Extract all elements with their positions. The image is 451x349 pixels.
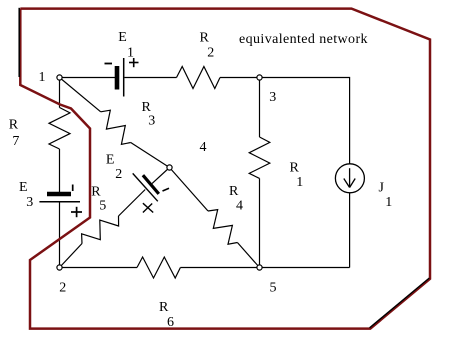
- svg-text:R: R: [159, 300, 169, 315]
- svg-text:3: 3: [26, 195, 33, 210]
- svg-text:5: 5: [270, 280, 277, 295]
- wire node2 to R6: [60, 267, 138, 269]
- wire node1 to E1: [60, 77, 116, 79]
- wire E1 to R2: [125, 77, 177, 79]
- svg-text:E: E: [106, 152, 115, 167]
- wire E2 to R5: [119, 190, 146, 217]
- svg-text:R: R: [9, 118, 19, 133]
- wire R4 to node5: [237, 243, 259, 268]
- svg-text:1: 1: [39, 70, 46, 85]
- wire node1 down to R7: [59, 78, 61, 108]
- resistor R1: [249, 137, 270, 178]
- battery E1: [105, 58, 139, 97]
- node 4: [167, 140, 207, 170]
- wire R1 to node5: [259, 178, 261, 267]
- svg-text:1: 1: [296, 175, 303, 190]
- label R3: [142, 100, 156, 129]
- resistor R5: [82, 216, 119, 244]
- wire node3 to top-right corner and down to J1: [260, 78, 350, 164]
- resistor R7: [49, 108, 70, 150]
- svg-text:2: 2: [59, 280, 66, 295]
- current source J1: [335, 164, 364, 193]
- label E2: [106, 152, 122, 182]
- svg-text:2: 2: [115, 167, 122, 182]
- wire R7 to E3: [59, 149, 61, 192]
- svg-text:7: 7: [12, 134, 19, 149]
- svg-text:R: R: [91, 185, 101, 200]
- svg-text:1: 1: [127, 45, 134, 60]
- svg-text:1: 1: [385, 195, 392, 210]
- battery E3: [39, 185, 82, 218]
- wire R6 to node5: [180, 267, 259, 269]
- svg-text:4: 4: [236, 199, 243, 214]
- svg-text:4: 4: [200, 140, 207, 155]
- resistor R6: [137, 257, 180, 278]
- svg-text:R: R: [290, 161, 300, 176]
- resistor R4: [208, 210, 237, 245]
- wire node4 to R4: [170, 168, 209, 212]
- node 5: [257, 265, 277, 295]
- wire R2 to node3: [220, 77, 260, 79]
- label R2: [200, 30, 215, 60]
- label R7: [9, 118, 20, 150]
- wire node3 to R1: [259, 78, 261, 138]
- node 3: [257, 75, 276, 105]
- svg-text:3: 3: [269, 90, 276, 105]
- label R5: [91, 185, 106, 214]
- svg-text:equivalented network: equivalented network: [239, 32, 368, 47]
- label J1: [379, 181, 393, 211]
- svg-text:J: J: [379, 181, 385, 196]
- svg-text:3: 3: [148, 113, 155, 128]
- wire node1 to R3: [60, 78, 101, 112]
- wire R5 to node2: [60, 244, 83, 268]
- resistor R2: [177, 67, 221, 89]
- label E1: [118, 30, 134, 61]
- wire node4 to E2: [152, 168, 170, 184]
- label R4: [229, 184, 243, 214]
- node 2: [57, 265, 66, 295]
- label R1: [290, 161, 304, 191]
- label R6: [159, 300, 174, 330]
- wire J1 to bottom wire: [349, 193, 351, 268]
- wire E3 to node2: [59, 202, 61, 265]
- svg-text:2: 2: [207, 45, 214, 60]
- wire R3 to node4: [131, 143, 170, 168]
- resistor R3: [101, 110, 131, 144]
- svg-text:R: R: [200, 30, 210, 45]
- wire node5 to J1 branch: [260, 267, 350, 269]
- label E3: [19, 180, 33, 210]
- svg-text:E: E: [19, 180, 28, 195]
- battery E2: [133, 173, 169, 212]
- svg-text:5: 5: [99, 199, 106, 214]
- node 1: [39, 70, 63, 85]
- svg-text:R: R: [229, 184, 239, 199]
- svg-text:E: E: [118, 30, 127, 45]
